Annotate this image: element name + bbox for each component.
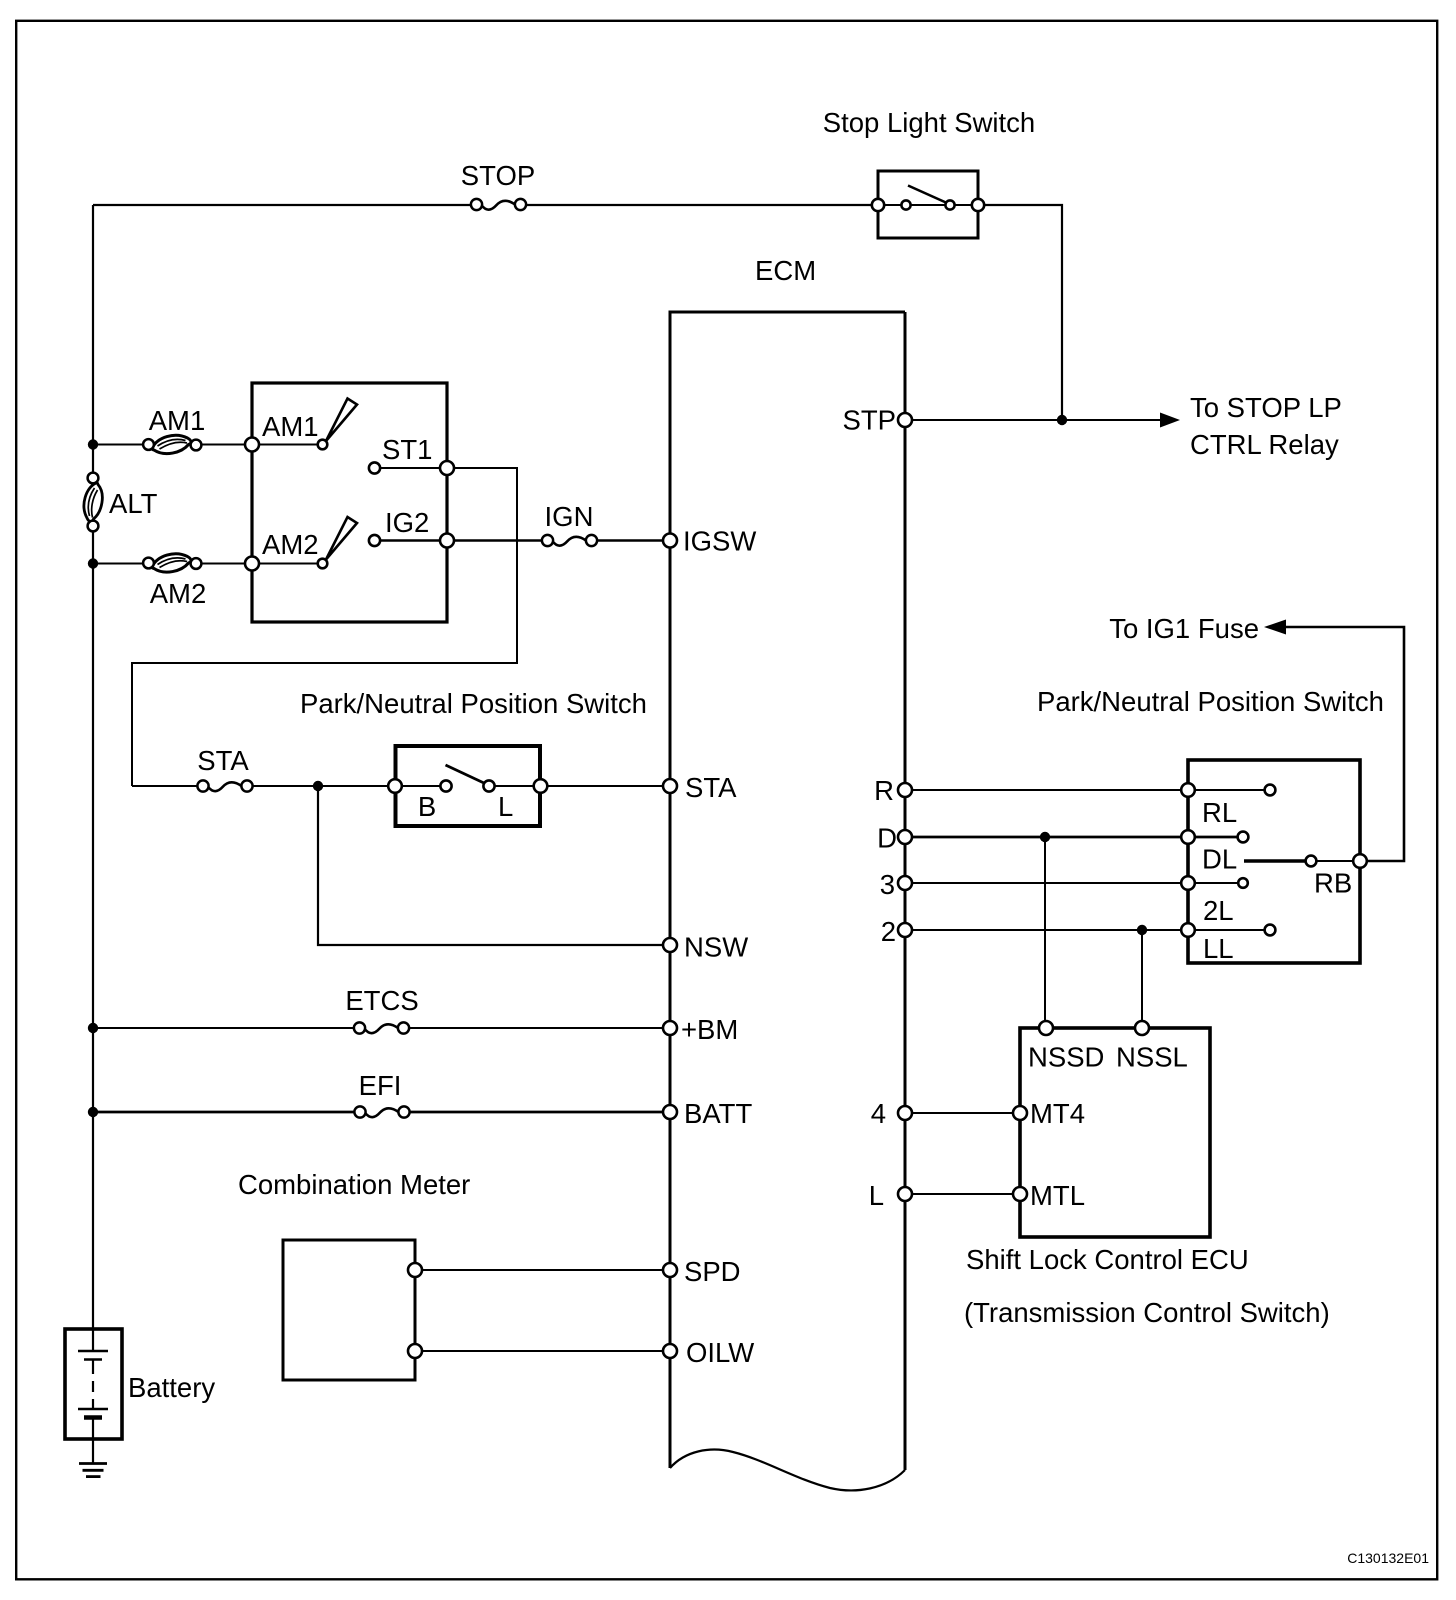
svg-text:L: L [498,791,513,822]
svg-text:IG2: IG2 [385,507,429,538]
svg-text:STA: STA [197,745,249,776]
svg-text:BATT: BATT [684,1098,752,1129]
svg-text:ALT: ALT [109,488,158,519]
svg-text:NSW: NSW [684,932,748,963]
svg-text:MT4: MT4 [1030,1098,1085,1129]
svg-text:Park/Neutral Position Switch: Park/Neutral Position Switch [300,688,647,719]
svg-text:IGN: IGN [545,501,594,532]
svg-text:C130132E01: C130132E01 [1347,1550,1429,1566]
svg-text:AM1: AM1 [262,411,319,442]
svg-text:SPD: SPD [684,1256,741,1287]
svg-text:RB: RB [1314,868,1352,899]
svg-text:+BM: +BM [681,1014,738,1045]
svg-text:Stop Light Switch: Stop Light Switch [823,107,1035,138]
svg-text:MTL: MTL [1030,1180,1085,1211]
svg-text:RL: RL [1202,797,1237,828]
svg-text:NSSD: NSSD [1028,1042,1104,1073]
svg-text:EFI: EFI [359,1070,402,1101]
svg-text:ETCS: ETCS [345,985,418,1016]
svg-text:R: R [874,775,894,806]
svg-text:3: 3 [880,869,895,900]
svg-text:(Transmission Control Switch): (Transmission Control Switch) [964,1297,1330,1328]
svg-text:B: B [418,791,436,822]
svg-text:ST1: ST1 [382,434,432,465]
svg-text:D: D [877,823,897,854]
svg-text:Park/Neutral Position Switch: Park/Neutral Position Switch [1037,686,1384,717]
svg-text:2L: 2L [1203,895,1234,926]
svg-text:LL: LL [1203,933,1234,964]
svg-text:Combination Meter: Combination Meter [238,1169,470,1200]
svg-text:Shift Lock Control ECU: Shift Lock Control ECU [966,1244,1249,1275]
svg-text:STA: STA [685,772,737,803]
svg-text:DL: DL [1202,844,1237,875]
svg-text:STOP: STOP [461,160,535,191]
svg-text:2: 2 [881,916,896,947]
svg-text:Battery: Battery [128,1372,215,1403]
svg-text:4: 4 [871,1098,886,1129]
svg-text:To IG1 Fuse: To IG1 Fuse [1109,613,1259,644]
svg-text:ECM: ECM [755,255,816,286]
svg-text:L: L [869,1180,884,1211]
svg-text:NSSL: NSSL [1116,1042,1188,1073]
svg-text:IGSW: IGSW [683,526,756,557]
svg-text:AM2: AM2 [262,529,319,560]
svg-text:AM2: AM2 [150,578,207,609]
svg-text:AM1: AM1 [149,405,206,436]
svg-text:OILW: OILW [686,1337,754,1368]
svg-text:CTRL Relay: CTRL Relay [1190,429,1339,460]
svg-text:To STOP LP: To STOP LP [1190,392,1342,423]
svg-text:STP: STP [843,405,896,436]
